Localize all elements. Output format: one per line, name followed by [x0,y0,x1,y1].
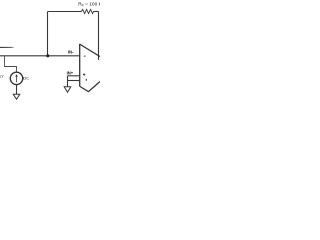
svg-text:RF = 100 kΩ: RF = 100 kΩ [78,2,100,8]
wire feedback vertical left [47,12,49,56]
wire V- pin stub [68,80,81,82]
op-amp minus sign [84,55,86,58]
wire stub from left edge (cropped net) [0,46,14,48]
resistor RF zigzag [82,9,94,13]
op-amp plus sign [83,73,85,76]
wire top feedback horizontal right of resistor [94,11,99,13]
ground (source) open arrowhead [13,94,20,99]
svg-text:LY: LY [0,75,4,79]
wire non-inverting input stub [68,75,81,77]
op-amp U1 left edge [79,44,81,87]
svg-text:IN-: IN- [68,50,74,55]
wire inverting input net horizontal [0,55,80,57]
current source I1 circle [10,72,22,84]
wire feedback vertical right to op-amp output [98,12,100,61]
junction node feedback/input [46,54,49,57]
wire IN+ to ground vertical [67,76,69,87]
wire top feedback horizontal left of resistor [48,11,82,13]
wire jog from input net down to current source [5,56,17,73]
op-amp U1 top edge [80,44,101,57]
svg-text:IN+: IN+ [67,71,74,76]
ground (op-amp) open arrowhead [64,87,71,93]
current source I1 arrow [16,75,18,82]
op-amp U1 bottom V edge [80,82,100,92]
op-amp pin mark [86,79,87,81]
wire current source to ground [16,85,18,95]
svg-text:DC: DC [23,76,29,81]
